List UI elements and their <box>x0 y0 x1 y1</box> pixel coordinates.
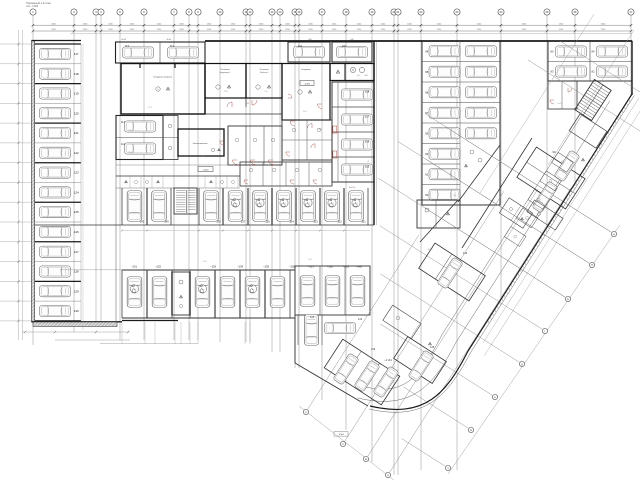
svg-text:12.5: 12.5 <box>308 259 312 261</box>
lower right stall block <box>295 266 370 315</box>
core right wall <box>373 41 375 225</box>
right parking column A <box>422 41 500 205</box>
room below staircase <box>569 114 607 148</box>
stalls 114 and 111 <box>116 116 163 160</box>
svg-text:h=2.4: h=2.4 <box>558 103 563 105</box>
lower row service room <box>172 272 190 315</box>
svg-text:146: 146 <box>463 251 468 255</box>
svg-text:112: 112 <box>170 44 175 48</box>
svg-text:95: 95 <box>425 70 428 74</box>
svg-text:145: 145 <box>430 345 435 349</box>
svg-text:141: 141 <box>358 317 363 321</box>
svg-text:(водомерн.): (водомерн.) <box>220 72 231 74</box>
svg-text:~131: ~131 <box>131 265 137 269</box>
top stall block with two cars (115/112) <box>116 42 206 63</box>
svg-text:~137: ~137 <box>308 265 314 269</box>
svg-text:13.6: 13.6 <box>128 130 132 132</box>
svg-text:127: 127 <box>74 250 79 254</box>
corridor under R2/R3 <box>205 97 282 99</box>
ramp hatch ticks <box>629 99 630 102</box>
svg-text:96: 96 <box>425 90 428 94</box>
svg-text:14.1: 14.1 <box>303 111 307 113</box>
svg-text:83: 83 <box>551 70 554 74</box>
chain A dimension line <box>448 225 620 474</box>
svg-text:1: 1 <box>158 89 159 91</box>
svg-text:118: 118 <box>74 72 79 76</box>
diagonal cut cells <box>458 145 500 202</box>
rotated staircase <box>575 79 611 120</box>
shaft red cabinets <box>333 126 337 133</box>
svg-text:128: 128 <box>74 270 79 274</box>
room electro <box>178 129 224 156</box>
svg-text:130: 130 <box>74 309 79 313</box>
svg-text:82: 82 <box>592 70 595 74</box>
svg-text:119: 119 <box>74 92 79 96</box>
svg-text:122: 122 <box>74 151 79 155</box>
svg-text:124: 124 <box>74 191 79 195</box>
svg-text:~132: ~132 <box>155 265 161 269</box>
svg-text:104: 104 <box>289 220 294 224</box>
cells left of group 1 <box>499 198 532 228</box>
diag stall around car 145 <box>394 337 447 384</box>
ramp outside parallel lines <box>483 98 639 342</box>
extra B-family grid lines top right <box>480 14 594 193</box>
left column bottom wall <box>32 321 123 323</box>
svg-text:137: 137 <box>241 220 246 224</box>
right wall <box>631 41 633 95</box>
svg-text:140: 140 <box>164 220 169 224</box>
diag stall group 2 (146) <box>419 243 486 301</box>
small level label bottom <box>334 432 348 437</box>
diag stall group 1 (two cars) <box>517 147 585 209</box>
ramp outer wall <box>370 94 632 409</box>
svg-text:м: м <box>365 458 367 461</box>
ramp lane lines inside <box>357 101 609 401</box>
rooms x282-332 y120-160 <box>282 120 332 160</box>
svg-text:138: 138 <box>216 220 221 224</box>
middle stall row stalls and cars <box>120 188 122 225</box>
upper boundary lines <box>70 33 632 35</box>
small wc rooms right of 114 <box>163 116 178 160</box>
svg-text:17.2: 17.2 <box>148 107 152 109</box>
svg-text:Кладовая: Кладовая <box>301 69 310 71</box>
svg-text:г: г <box>545 330 546 333</box>
svg-text:142: 142 <box>140 220 145 224</box>
svg-text:143: 143 <box>371 347 376 351</box>
stairs in middle row <box>174 188 197 214</box>
column A right cars <box>459 41 461 205</box>
svg-text:~138: ~138 <box>327 265 333 269</box>
svg-text:123: 123 <box>74 171 79 175</box>
rooms below column A <box>417 200 460 228</box>
right 2x2 block <box>548 41 632 81</box>
stalls below block <box>305 315 319 346</box>
svg-text:~134: ~134 <box>237 265 243 269</box>
svg-text:121: 121 <box>74 131 79 135</box>
svg-text:125: 125 <box>74 210 79 214</box>
rooms x240-332 y162-186 (wc row) <box>240 162 332 186</box>
middle stall row header <box>116 175 240 177</box>
header cells symbols <box>129 176 131 188</box>
svg-text:131: 131 <box>310 315 315 319</box>
stalls 101/100 top <box>288 42 330 62</box>
left column cars and numbers <box>40 48 71 59</box>
aisle left wall x116 <box>115 160 117 324</box>
svg-text:Тепловая: Тепловая <box>220 69 229 71</box>
bottom hatched wall left part <box>33 322 117 326</box>
svg-text:107: 107 <box>365 115 370 119</box>
svg-text:105: 105 <box>365 165 370 169</box>
svg-text:~2 144: ~2 144 <box>384 359 392 362</box>
svg-text:91: 91 <box>425 172 428 176</box>
bottom left dimension lines <box>22 331 130 333</box>
svg-text:R-9.0: R-9.0 <box>428 249 433 251</box>
corridor label <box>198 167 213 172</box>
svg-text:-4.300: -4.300 <box>338 434 345 436</box>
svg-text:126: 126 <box>74 230 79 234</box>
svg-text:~139: ~139 <box>343 265 349 269</box>
svg-text:136: 136 <box>265 220 270 224</box>
svg-text:~133: ~133 <box>210 265 216 269</box>
svg-text:106: 106 <box>365 140 370 144</box>
diagonal family B grid lines with bubbles (bottom chain) <box>308 235 419 409</box>
rooms R2 R3 (teplovaya) <box>205 64 246 99</box>
chain B dimension line <box>299 406 395 480</box>
extra A-family lines through top-right block <box>560 41 640 92</box>
svg-text:отм. -4.500: отм. -4.500 <box>26 5 39 8</box>
svg-text:-4.300: -4.300 <box>304 83 311 85</box>
svg-text:Тмп.Тйс: Тмп.Тйс <box>349 186 356 189</box>
svg-text:8.2: 8.2 <box>454 195 457 197</box>
svg-text:101: 101 <box>361 220 366 224</box>
top main wall <box>205 40 632 42</box>
bottom-center diagonal stalls 143/144/145 <box>324 339 400 405</box>
svg-text:84: 84 <box>592 50 595 54</box>
room R4 kladovaya right <box>282 64 330 121</box>
top grid bubbles and vertical grid lines <box>32 15 34 345</box>
svg-text:ж: ж <box>470 429 472 432</box>
lower stall row structure <box>122 269 295 271</box>
svg-text:93: 93 <box>425 131 428 135</box>
svg-text:90: 90 <box>425 193 428 197</box>
left boundary of diagonal stall block <box>294 315 296 363</box>
svg-text:~140: ~140 <box>356 265 362 269</box>
svg-text:103: 103 <box>313 220 318 224</box>
svg-text:102: 102 <box>337 220 342 224</box>
top dimension lines <box>33 24 631 26</box>
cells row below group1 <box>527 200 563 230</box>
small storage cells along ramp edge <box>552 152 574 172</box>
rooms between 548-577 below <box>548 81 577 109</box>
diagonal family A grid lines with bubbles (lower-right chain) <box>445 127 611 233</box>
diag stall group 3 (cell) <box>383 305 421 339</box>
svg-text:111: 111 <box>121 142 125 146</box>
svg-text:13.6: 13.6 <box>128 152 132 154</box>
svg-text:94: 94 <box>425 49 428 53</box>
svg-text:115: 115 <box>125 44 130 48</box>
left parking stalls <box>35 43 81 45</box>
svg-text:Электрощитовая: Электрощитовая <box>193 143 208 145</box>
svg-text:129: 129 <box>74 289 79 293</box>
svg-text:~135: ~135 <box>263 265 269 269</box>
svg-text:85: 85 <box>551 50 554 54</box>
svg-text:с1: с1 <box>367 161 369 163</box>
svg-text:12.5: 12.5 <box>203 261 207 263</box>
left parking column wall <box>32 41 35 323</box>
svg-text:-4.45: -4.45 <box>166 39 172 41</box>
svg-text:-4.45: -4.45 <box>121 39 127 41</box>
red door arcs core <box>290 121 295 126</box>
small rooms x228-282 <box>228 126 282 165</box>
svg-text:108: 108 <box>365 90 370 94</box>
svg-text:100: 100 <box>342 44 347 48</box>
svg-text:92: 92 <box>425 152 428 156</box>
svg-text:11.8: 11.8 <box>224 91 228 93</box>
elevator room <box>330 64 374 81</box>
svg-text:9.6: 9.6 <box>265 91 268 93</box>
svg-text:ТШ: ТШ <box>319 129 322 131</box>
svg-text:5.4: 5.4 <box>584 75 587 77</box>
svg-text:Тепловая: Тепловая <box>259 69 268 71</box>
svg-text:101: 101 <box>298 44 303 48</box>
svg-text:120: 120 <box>74 111 79 115</box>
svg-text:-4.300: -4.300 <box>203 169 210 171</box>
svg-text:117: 117 <box>74 52 79 56</box>
svg-text:-4.8: -4.8 <box>364 75 367 77</box>
dim ticks under middle stall row <box>122 230 370 232</box>
svg-text:24.0: 24.0 <box>201 156 205 158</box>
stall column 108/107/106/105 <box>332 82 374 182</box>
svg-text:~136: ~136 <box>289 265 295 269</box>
svg-text:-4.8: -4.8 <box>356 75 359 77</box>
left horizontal grid lines <box>0 43 33 45</box>
svg-text:(Venkam.): (Venkam.) <box>260 72 269 74</box>
inner band wall along ramp stalls <box>462 138 532 248</box>
svg-text:Кладовая уборочн.: Кладовая уборочн. <box>153 77 173 79</box>
storage room R1 <box>121 64 205 115</box>
svg-text:114: 114 <box>121 120 126 124</box>
lower row bottom wall <box>122 317 295 319</box>
